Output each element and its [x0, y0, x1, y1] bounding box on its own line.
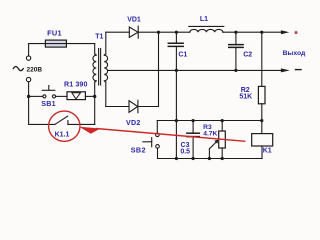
relay contact K1.1 [29, 116, 95, 124]
svg-text:C2: C2 [243, 51, 252, 58]
svg-text:K1: K1 [263, 147, 272, 154]
diode VD1 [129, 26, 138, 38]
resistor R3 4.7K (trimmer) [209, 121, 225, 159]
svg-text:51K: 51K [239, 94, 252, 101]
terminal circle bottom (220V input) [26, 77, 30, 81]
wire R1 to primary node [85, 95, 94, 97]
svg-text:FU1: FU1 [47, 28, 62, 37]
node junction dot left [27, 95, 30, 98]
lower rail [157, 120, 261, 122]
wire to SB1 [29, 95, 43, 97]
output arrow minus [281, 68, 290, 72]
push button SB2 [143, 133, 159, 148]
push button SB1 [42, 86, 55, 98]
junction dot K1 top [260, 119, 263, 122]
svg-text:SB2: SB2 [131, 146, 146, 155]
ground bus vertical [175, 70, 177, 158]
output plus dot red [295, 31, 298, 34]
red arrow from K1 to K1.1 [79, 127, 245, 142]
~ AC symbol [13, 67, 23, 71]
wire K1 bottom to rail [261, 146, 263, 158]
inductor L1 [189, 26, 224, 32]
resistor R2 51K [258, 86, 265, 103]
transformer T1 primary winding [93, 44, 96, 97]
svg-text:R1 390: R1 390 [64, 80, 87, 88]
wire from top terminal to transformer primary top [29, 44, 95, 56]
red highlight circle around K1.1 [49, 111, 80, 141]
terminal circle top (220V input) [26, 56, 30, 60]
wire through fuse [45, 43, 66, 45]
wire K1.1 riser to node [94, 96, 96, 124]
wire VD2 bottom line [106, 106, 129, 108]
svg-text:C1: C1 [178, 51, 187, 58]
svg-text:VD1: VD1 [127, 17, 141, 24]
fuse FU1 [45, 40, 66, 47]
svg-text:L1: L1 [200, 16, 208, 23]
top + rail VD1 to L1 [138, 31, 189, 33]
svg-text:VD2: VD2 [126, 119, 141, 127]
junction dot VD2 riser on + rail [157, 31, 160, 34]
svg-text:Выход: Выход [283, 50, 306, 57]
svg-text:SB1: SB1 [41, 99, 56, 108]
node junction dot at primary bottom [93, 95, 96, 98]
capacitor C1 [168, 32, 183, 70]
ground rail (center tap) [108, 69, 281, 71]
top + rail L1 to output [223, 31, 281, 33]
svg-text:T1: T1 [95, 34, 103, 41]
svg-text:K1.1: K1.1 [55, 131, 70, 138]
wire from bottom terminal down to K1.1 line [28, 82, 30, 125]
svg-text:4.7K: 4.7K [203, 130, 217, 137]
resistor R1 390 [67, 92, 85, 100]
wire SB1 to R1 [56, 95, 67, 97]
transformer T1 secondary winding [104, 32, 107, 106]
minus sign [296, 69, 302, 71]
capacitor C3 [187, 121, 199, 159]
diode VD2 [129, 100, 138, 113]
output arrow plus [281, 30, 289, 34]
wire R2 to lower rail [261, 104, 263, 134]
capacitor C2 [229, 32, 243, 70]
bottom rail [158, 158, 263, 160]
SB2 feed wire [156, 121, 158, 134]
wire VD2 cathode and riser to + rail [138, 32, 159, 106]
wire SB2 down to bottom rail [157, 148, 159, 158]
top + rail from secondary to VD1 [106, 31, 130, 33]
svg-text:220В: 220В [27, 66, 43, 73]
svg-text:0.5: 0.5 [180, 149, 190, 156]
transformer T1 core [99, 49, 101, 86]
resistor R2 51K riser [261, 32, 263, 86]
relay coil K1 [252, 134, 273, 146]
